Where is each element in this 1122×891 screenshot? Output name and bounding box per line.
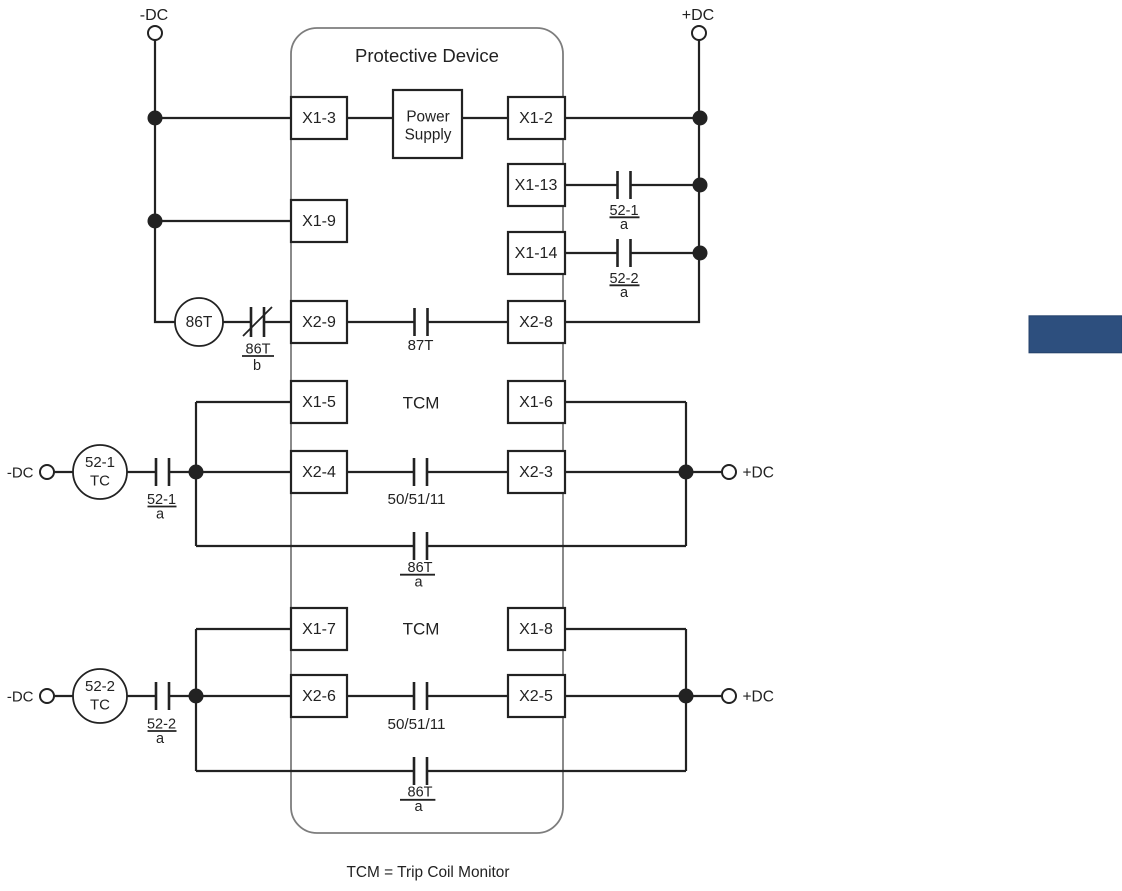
svg-text:a: a	[414, 799, 423, 815]
svg-text:TC: TC	[90, 697, 110, 714]
wire X1-6 to branch top	[565, 401, 686, 403]
svg-text:a: a	[620, 285, 629, 301]
wire X1-8 to branch top	[565, 628, 686, 630]
terminal box X1-14	[508, 232, 565, 274]
power supply box	[393, 90, 462, 158]
label 52-1 a (rowB)	[609, 203, 639, 233]
svg-text:87T: 87T	[408, 337, 434, 354]
wire X2-5 to +DC	[565, 695, 722, 697]
wire contact to X2-5	[427, 695, 508, 697]
svg-text:TCM: TCM	[403, 620, 440, 639]
wire contact to X2-4	[169, 471, 291, 473]
svg-text:X1-8: X1-8	[519, 621, 553, 638]
label 52-2 a (low)	[147, 717, 177, 748]
terminal +DC (low)	[722, 689, 774, 706]
svg-text:X1-6: X1-6	[519, 394, 553, 411]
terminal box X2-6	[291, 675, 347, 717]
wire coil to contact 52-1 a	[127, 471, 155, 473]
wire left branch rail 2	[195, 629, 197, 771]
terminal +DC (top)	[682, 7, 714, 40]
label 86T b	[242, 342, 274, 375]
terminal box X1-6	[508, 381, 565, 423]
wire branch top to X1-5	[196, 401, 291, 403]
node junction right rail rowB	[693, 178, 708, 193]
svg-text:TCM = Trip Coil Monitor: TCM = Trip Coil Monitor	[347, 864, 510, 881]
wire 86T coil to contact	[223, 321, 250, 323]
contact 52-2 a (low)	[156, 682, 169, 710]
svg-text:X2-8: X2-8	[519, 314, 553, 331]
terminal -DC (mid)	[7, 465, 54, 482]
svg-text:50/51/11: 50/51/11	[388, 491, 446, 508]
svg-text:X1-13: X1-13	[515, 177, 558, 194]
wire X2-3 to +DC	[565, 471, 722, 473]
coil 52-1 TC	[73, 445, 127, 499]
wire to X1-3	[155, 117, 291, 119]
wire branch top to X1-7	[196, 628, 291, 630]
node junction right rail row1	[693, 111, 708, 126]
terminal box X1-5	[291, 381, 347, 423]
node junction right branch 2	[679, 689, 694, 704]
svg-text:a: a	[156, 731, 165, 747]
label 52-1 a (mid)	[147, 492, 177, 523]
wire right rail	[565, 40, 699, 322]
svg-text:X1-9: X1-9	[302, 213, 336, 230]
svg-text:a: a	[414, 575, 423, 591]
wire X1-13 to contact	[565, 184, 617, 186]
terminal +DC (mid)	[722, 465, 774, 482]
wire X1-3 to power supply	[347, 117, 393, 119]
svg-text:TCM: TCM	[403, 394, 440, 413]
wire contact to right rail rowB	[631, 184, 699, 186]
terminal box X2-3	[508, 451, 565, 493]
wire X2-9 to contact 87T	[347, 321, 414, 323]
contact 86T a (section 2)	[414, 757, 427, 785]
terminal box X1-13	[508, 164, 565, 206]
wire right branch rail 2	[685, 629, 687, 771]
svg-text:X1-5: X1-5	[302, 394, 336, 411]
protective device enclosure	[291, 28, 563, 833]
wire power supply to X1-2	[462, 117, 508, 119]
node junction right branch 1	[679, 465, 694, 480]
terminal box X1-2	[508, 97, 565, 139]
svg-text:X2-6: X2-6	[302, 688, 336, 705]
wire left rail	[155, 40, 175, 322]
svg-text:b: b	[253, 358, 261, 374]
wire bottom branch 2 left	[196, 770, 414, 772]
label Protective Device	[355, 45, 499, 66]
svg-text:a: a	[156, 507, 165, 523]
terminal -DC (top)	[140, 7, 168, 40]
contact 52-2 a (rowC)	[618, 239, 631, 267]
svg-text:52-2: 52-2	[85, 678, 115, 695]
svg-text:-DC: -DC	[140, 7, 168, 24]
terminal -DC (low)	[7, 689, 54, 706]
wire contact to X2-6	[169, 695, 291, 697]
contact 87T	[415, 308, 428, 336]
svg-text:52-1: 52-1	[85, 454, 115, 471]
svg-text:+DC: +DC	[743, 689, 774, 706]
wire right branch rail 1	[685, 402, 687, 546]
contact 50/51/11 (section 2)	[414, 682, 427, 710]
wire contact to right rail rowC	[631, 252, 699, 254]
contact 52-1 a (mid)	[156, 458, 169, 486]
svg-text:-DC: -DC	[7, 465, 34, 482]
label 52-2 a (rowC)	[609, 271, 639, 301]
wire bottom branch 2 right	[427, 770, 686, 772]
wire -DC to coil 52-2 TC	[54, 695, 73, 697]
svg-text:X2-9: X2-9	[302, 314, 336, 331]
terminal box X2-9	[291, 301, 347, 343]
wire bottom branch 1 left	[196, 545, 414, 547]
contact 86T b	[243, 307, 272, 337]
svg-text:X2-3: X2-3	[519, 464, 553, 481]
svg-text:X1-2: X1-2	[519, 110, 553, 127]
svg-text:X2-5: X2-5	[519, 688, 553, 705]
wire left branch rail 1	[195, 402, 197, 546]
node junction left rail row1	[148, 111, 163, 126]
label 86T a (section 2)	[400, 785, 435, 816]
svg-text:X1-3: X1-3	[302, 110, 336, 127]
svg-text:Power: Power	[406, 108, 449, 125]
terminal box X2-4	[291, 451, 347, 493]
svg-text:86T: 86T	[186, 314, 213, 331]
terminal box X1-3	[291, 97, 347, 139]
svg-text:X1-14: X1-14	[515, 245, 558, 262]
node junction right rail rowC	[693, 246, 708, 261]
svg-text:Supply: Supply	[405, 127, 452, 144]
coil 86T	[175, 298, 223, 346]
svg-text:+DC: +DC	[743, 465, 774, 482]
node junction left branch 2	[189, 689, 204, 704]
wire X1-2 to right rail	[565, 117, 699, 119]
terminal box X2-5	[508, 675, 565, 717]
terminal box X1-7	[291, 608, 347, 650]
svg-text:X2-4: X2-4	[302, 464, 336, 481]
wire coil to contact 52-2 a	[127, 695, 155, 697]
wire bottom branch 1 right	[427, 545, 686, 547]
svg-text:a: a	[620, 217, 629, 233]
contact 86T a (section 1)	[414, 532, 427, 560]
terminal box X1-9	[291, 200, 347, 242]
node junction left rail row2	[148, 214, 163, 229]
svg-text:-DC: -DC	[7, 689, 34, 706]
svg-text:Protective Device: Protective Device	[355, 45, 499, 66]
wire contact to X2-9	[264, 321, 291, 323]
contact 50/51/11 (section 1)	[414, 458, 427, 486]
wire to X1-9	[155, 220, 291, 222]
svg-text:+DC: +DC	[682, 7, 714, 24]
wire -DC to coil 52-1 TC	[54, 471, 73, 473]
wire X2-6 to contact 50/51/11	[347, 695, 414, 697]
wire contact 87T to X2-8	[428, 321, 508, 323]
terminal box X2-8	[508, 301, 565, 343]
blue sidebar marker	[1029, 316, 1122, 353]
wire X2-4 to contact 50/51/11	[347, 471, 414, 473]
coil 52-2 TC	[73, 669, 127, 723]
terminal box X1-8	[508, 608, 565, 650]
contact 52-1 a (rowB)	[618, 171, 631, 199]
wire X1-14 to contact	[565, 252, 617, 254]
label 86T a (section 1)	[400, 560, 435, 591]
svg-text:TC: TC	[90, 472, 110, 489]
svg-text:50/51/11: 50/51/11	[388, 716, 446, 733]
svg-text:X1-7: X1-7	[302, 621, 336, 638]
wire contact to X2-3	[427, 471, 508, 473]
node junction left branch 1	[189, 465, 204, 480]
